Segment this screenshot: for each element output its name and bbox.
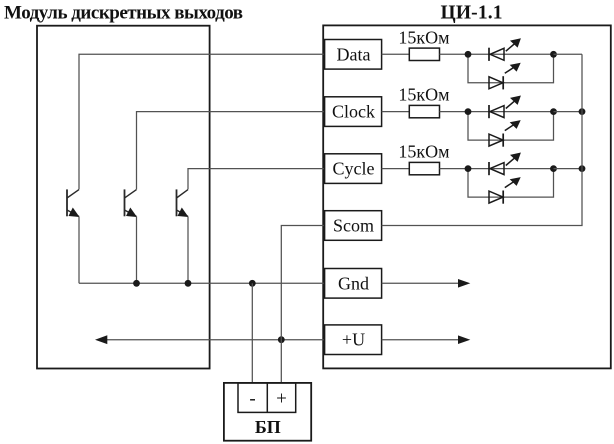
junction: right of Data LED pair — [550, 51, 557, 58]
svg-text:15кОм: 15кОм — [398, 142, 449, 162]
wire: Data terminal to R1 — [382, 53, 410, 55]
terminal box Data — [325, 40, 382, 70]
wire: Cycle terminal to R3 — [382, 168, 410, 170]
wire: +U terminal to right arrow — [382, 339, 460, 341]
transistor Q1 — [67, 189, 80, 217]
box: PSU terminal cells — [238, 383, 296, 413]
LED VD5 cathode bar — [488, 162, 490, 175]
svg-text:15кОм: 15кОм — [398, 27, 449, 47]
node: Clock LED pair — [465, 96, 586, 147]
resistor R2 — [409, 105, 439, 117]
LED VD1 cathode bar — [488, 48, 490, 61]
junction: bus at Clock row — [579, 108, 586, 115]
wire: common anode bus down to Scom terminal — [382, 54, 582, 225]
LED VD2 triangle — [489, 77, 503, 89]
svg-text:Gnd: Gnd — [338, 273, 369, 293]
LED VD4 cathode bar — [502, 134, 504, 147]
LED VD1 emission arrow — [506, 44, 515, 52]
junction: right of Cycle LED pair — [550, 165, 557, 172]
LED VD6 cathode bar — [502, 191, 504, 204]
wire: +U line — [107, 339, 325, 341]
node: Cycle LED pair — [465, 153, 586, 204]
svg-text:Cycle: Cycle — [333, 159, 375, 179]
junction: Q3 emitter on Gnd line — [185, 280, 192, 287]
terminal box +U — [325, 325, 382, 355]
wire: Q3 emitter down — [187, 217, 189, 284]
wire: common emitter / Gnd line — [79, 282, 325, 284]
arrowhead: +U left arrow — [95, 335, 107, 344]
terminal box Clock — [325, 97, 382, 127]
resistor R3 — [409, 162, 439, 174]
junction: PSU minus tap on Gnd line — [249, 280, 256, 287]
wire: Scom stub down to PSU plus — [281, 226, 324, 384]
junction: Q2 emitter on Gnd line — [133, 280, 140, 287]
wire: Q2 emitter down — [136, 217, 138, 284]
svg-text:Data: Data — [337, 44, 371, 64]
svg-text:БП: БП — [255, 417, 281, 437]
transistor Q3 — [177, 189, 189, 217]
LED VD3 emission arrow — [506, 101, 515, 109]
box: ЦИ-1.1 indicator unit — [323, 25, 611, 368]
svg-text:Scom: Scom — [333, 216, 374, 236]
wire: Cycle line from transistor collector to Cycle terminal — [188, 169, 325, 190]
junction: left of Data LED pair — [465, 51, 472, 58]
wire: Clock line from transistor collector to Clock terminal — [137, 112, 325, 190]
junction: bus at Cycle row — [579, 165, 586, 172]
LED VD3 cathode bar — [488, 105, 490, 118]
wire: Q1 emitter down — [78, 217, 80, 284]
arrowhead: +U arrow — [458, 335, 470, 344]
LED VD4 triangle — [489, 134, 503, 146]
terminal box Cycle — [325, 154, 382, 184]
svg-text:Clock: Clock — [332, 102, 375, 122]
LED VD1 triangle — [490, 48, 504, 60]
svg-text:15кОм: 15кОм — [398, 85, 449, 105]
wire: Data bottom branch loop — [468, 54, 554, 83]
LED VD5 triangle — [490, 163, 504, 175]
wire: Cycle to common anode bus — [554, 168, 583, 170]
wire: Cycle bottom branch loop — [468, 169, 554, 198]
LED VD5 emission arrow — [506, 158, 515, 166]
junction: right of Clock LED pair — [550, 108, 557, 115]
terminal box Scom — [325, 211, 382, 241]
wire: Clock bottom branch loop — [468, 112, 554, 141]
transistor Q2 — [125, 189, 138, 217]
wire: PSU minus riser — [251, 283, 253, 383]
svg-text:+U: +U — [342, 330, 365, 350]
junction: left of Clock LED pair — [465, 108, 472, 115]
box: discrete outputs module — [37, 26, 210, 369]
wire: Clock terminal to R2 — [382, 111, 410, 113]
box: PSU БП — [224, 383, 311, 441]
wire: Clock top branch — [468, 111, 554, 113]
svg-text:+: + — [276, 389, 287, 410]
wire: R1 to LED junction — [440, 53, 469, 55]
LED VD6 emission arrow — [505, 182, 514, 188]
svg-text:-: - — [249, 389, 255, 410]
LED VD3 triangle — [490, 106, 504, 118]
junction: PSU plus tap on +U line — [278, 336, 285, 343]
LED VD2 emission arrow — [505, 67, 514, 73]
arrowhead: Gnd arrow — [458, 279, 470, 288]
wire: R2 to LED junction — [440, 111, 469, 113]
junction: left of Cycle LED pair — [465, 165, 472, 172]
LED VD6 triangle — [489, 191, 503, 203]
wire: Data to common anode bus — [554, 53, 583, 55]
terminal box Gnd — [325, 269, 382, 299]
resistor R1 — [409, 48, 439, 60]
wire: Clock to common anode bus — [554, 111, 583, 113]
wire: Gnd terminal to right arrow — [382, 282, 460, 284]
svg-text:ЦИ-1.1: ЦИ-1.1 — [441, 3, 503, 24]
divider: PSU cells — [266, 383, 268, 413]
LED VD4 emission arrow — [505, 125, 514, 131]
wire: Data top branch — [468, 53, 554, 55]
svg-text:Модуль дискретных выходов: Модуль дискретных выходов — [4, 3, 243, 24]
wire: Data line from transistor collector to Data terminal — [79, 54, 325, 189]
node: Data LED pair — [465, 38, 582, 89]
wire: R3 to LED junction — [440, 168, 469, 170]
LED VD2 cathode bar — [502, 76, 504, 89]
wire: Cycle top branch — [468, 168, 554, 170]
